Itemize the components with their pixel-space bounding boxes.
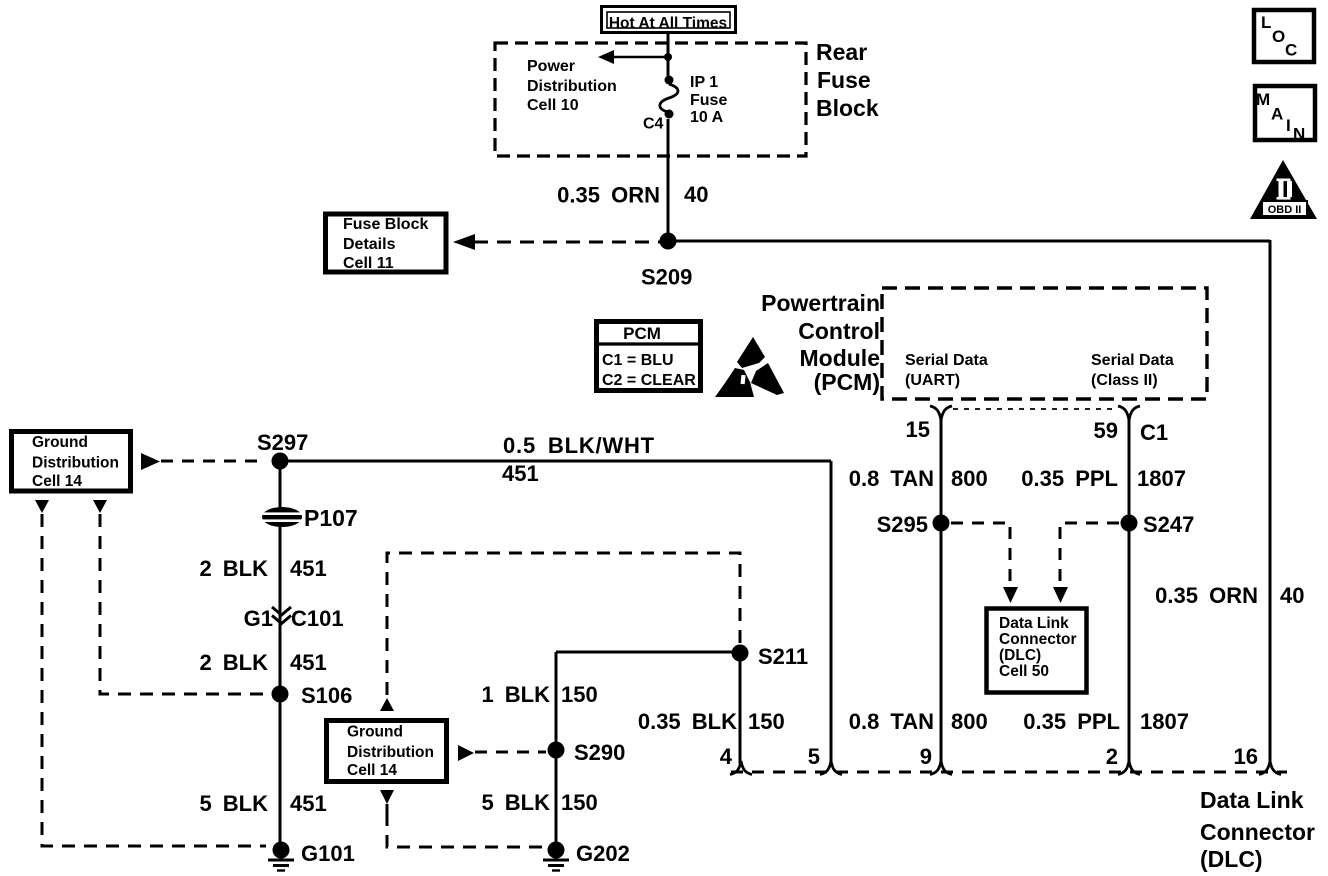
- wire S209 to right edge: [668, 240, 1270, 243]
- svg-text:(DLC): (DLC): [999, 647, 1041, 664]
- svg-text:S106: S106: [301, 683, 352, 708]
- svg-text:59: 59: [1094, 418, 1118, 443]
- DLC pin 9 entry: [930, 761, 952, 775]
- dashed reference S247 to DLC cell: [1053, 523, 1119, 603]
- svg-text:0.35 PPL: 0.35 PPL: [1023, 709, 1120, 734]
- wire label 5 BLK 451: [199, 791, 326, 816]
- splice S106: [272, 686, 289, 703]
- wire label 0.35 PPL 1807 (lower): [1023, 709, 1189, 734]
- Serial Data (UART) label: [905, 352, 988, 389]
- PCM dashed enclosure: [882, 288, 1207, 399]
- svg-text:Connector: Connector: [1200, 819, 1315, 845]
- Ground Distribution Cell 14 box (middle): [327, 721, 447, 782]
- splice S209: [660, 233, 677, 250]
- svg-text:Data Link: Data Link: [1200, 787, 1304, 813]
- svg-text:2 BLK: 2 BLK: [199, 650, 268, 675]
- wire label 2 BLK 451 (second): [199, 650, 326, 675]
- svg-text:S211: S211: [758, 644, 808, 669]
- svg-text:Connector: Connector: [999, 631, 1077, 648]
- arrow up above middle box: [380, 698, 394, 711]
- svg-text:S297: S297: [257, 430, 308, 455]
- splice S247: [1121, 515, 1138, 532]
- svg-text:1 BLK: 1 BLK: [481, 682, 550, 707]
- wire PCM 59 to DLC 2: [1128, 419, 1131, 764]
- svg-text:C: C: [1285, 41, 1297, 60]
- svg-text:C101: C101: [291, 606, 344, 631]
- wire label 2 BLK 451: [199, 556, 326, 581]
- svg-text:Block: Block: [816, 95, 879, 121]
- svg-text:(DLC): (DLC): [1200, 846, 1263, 872]
- svg-text:40: 40: [1280, 583, 1304, 608]
- svg-text:0.35 PPL: 0.35 PPL: [1021, 466, 1118, 491]
- svg-text:PCM: PCM: [623, 324, 661, 343]
- Data Link Connector (DLC) Cell 50 box: [987, 609, 1087, 693]
- connector G1 C101: [272, 607, 291, 624]
- svg-text:Fuse: Fuse: [817, 67, 871, 93]
- wire from fuse to S209: [667, 119, 670, 241]
- svg-text:C1 = BLU: C1 = BLU: [602, 352, 674, 369]
- svg-text:451: 451: [502, 461, 539, 486]
- dashed line to G202: [387, 804, 544, 847]
- splice S295: [933, 515, 950, 532]
- svg-text:451: 451: [290, 650, 327, 675]
- svg-text:Fuse Block: Fuse Block: [343, 216, 428, 233]
- svg-text:Power: Power: [527, 58, 575, 75]
- MAIN symbol: [1255, 86, 1315, 144]
- svg-text:M: M: [1256, 90, 1270, 109]
- svg-text:Control: Control: [798, 318, 880, 344]
- svg-text:OBD II: OBD II: [1268, 204, 1302, 216]
- wire down to DLC pin 5: [830, 461, 833, 764]
- Ground Distribution Cell 14 box (left): [12, 432, 131, 492]
- svg-text:Cell 10: Cell 10: [527, 97, 579, 114]
- Power Distribution Cell 10 label: [527, 58, 617, 114]
- svg-text:0.8 TAN: 0.8 TAN: [849, 466, 934, 491]
- wire label 0.8 TAN 800: [849, 466, 988, 491]
- svg-text:5: 5: [808, 744, 820, 769]
- svg-text:A: A: [1271, 105, 1283, 124]
- svg-text:Module: Module: [800, 345, 881, 371]
- wire S290 to S211: [556, 652, 740, 764]
- splice S297: [272, 453, 289, 470]
- svg-text:S247: S247: [1143, 512, 1194, 537]
- dashed reference S295 to DLC cell: [951, 523, 1018, 603]
- svg-text:IP 1: IP 1: [690, 74, 718, 91]
- svg-text:(Class II): (Class II): [1091, 372, 1158, 389]
- Rear Fuse Block label: [816, 39, 879, 121]
- svg-text:S295: S295: [877, 512, 928, 537]
- fuse value label IP 1 / Fuse / 10 A: [690, 74, 727, 126]
- svg-text:15: 15: [906, 417, 930, 442]
- PCM pin 15 connector exit: [930, 406, 952, 420]
- svg-text:Cell 50: Cell 50: [999, 663, 1049, 680]
- svg-text:16: 16: [1234, 744, 1258, 769]
- svg-text:9: 9: [920, 744, 932, 769]
- svg-text:Distribution: Distribution: [527, 78, 617, 95]
- svg-text:Details: Details: [343, 236, 396, 253]
- svg-text:1807: 1807: [1137, 466, 1186, 491]
- DLC pin 16 entry: [1259, 761, 1281, 775]
- svg-text:40: 40: [684, 182, 708, 207]
- ESD sensitivity symbol: [715, 337, 784, 397]
- wire down right side to DLC pin 16: [1269, 240, 1272, 764]
- svg-text:0.5 BLK/WHT: 0.5 BLK/WHT: [503, 433, 655, 458]
- svg-text:Serial Data: Serial Data: [905, 352, 988, 369]
- svg-text:2 BLK: 2 BLK: [199, 556, 268, 581]
- svg-text:150: 150: [561, 790, 598, 815]
- svg-text:150: 150: [748, 709, 785, 734]
- PCM connector legend box: [597, 322, 701, 391]
- svg-text:G202: G202: [576, 841, 630, 866]
- svg-text:Cell 14: Cell 14: [347, 762, 397, 779]
- svg-text:Cell 11: Cell 11: [343, 255, 394, 272]
- svg-text:Serial Data: Serial Data: [1091, 352, 1174, 369]
- node junction at fuse feed: [664, 53, 672, 61]
- svg-text:C2 = CLEAR: C2 = CLEAR: [602, 372, 696, 389]
- svg-text:5 BLK: 5 BLK: [481, 790, 550, 815]
- svg-text:C4: C4: [643, 116, 664, 133]
- PCM pin 59 connector exit: [1118, 406, 1140, 420]
- svg-text:0.35 ORN: 0.35 ORN: [557, 183, 660, 208]
- DLC pin 4 entry: [730, 761, 752, 775]
- svg-text:G1: G1: [244, 606, 273, 631]
- svg-text:451: 451: [290, 556, 327, 581]
- svg-text:C1: C1: [1140, 420, 1168, 445]
- svg-text:451: 451: [290, 791, 327, 816]
- dashed reference to S290 with arrow: [458, 745, 546, 761]
- svg-text:800: 800: [951, 709, 988, 734]
- wire PCM 15 to DLC 9: [940, 419, 943, 764]
- svg-text:Ground: Ground: [347, 724, 403, 741]
- dashed reference to Fuse Block Details: [453, 234, 660, 250]
- wire label 0.35 ORN 40: [557, 182, 708, 208]
- svg-text:P107: P107: [304, 505, 358, 531]
- Powertrain Control Module (PCM) label: [761, 290, 880, 395]
- arrow to Power Distribution: [598, 50, 668, 64]
- svg-text:0.35 ORN: 0.35 ORN: [1155, 583, 1258, 608]
- wire label 0.35 ORN 40 (right): [1155, 583, 1304, 608]
- Serial Data (Class II) label: [1091, 352, 1174, 389]
- svg-text:(UART): (UART): [905, 372, 960, 389]
- svg-text:5 BLK: 5 BLK: [199, 791, 268, 816]
- splice S290: [548, 742, 565, 759]
- dashed reference to S297 with arrow: [141, 453, 266, 470]
- wire label 0.35 PPL 1807: [1021, 466, 1186, 491]
- vertical wire S211 branch to G202: [555, 652, 558, 850]
- svg-text:Hot At All Times: Hot At All Times: [609, 15, 727, 32]
- svg-text:Distribution: Distribution: [347, 744, 434, 761]
- svg-text:O: O: [1272, 27, 1285, 46]
- svg-text:Data Link: Data Link: [999, 615, 1069, 632]
- wire from Hot At All Times down to fuse: [667, 34, 670, 78]
- svg-text:I: I: [1286, 116, 1291, 135]
- wire label 0.8 TAN 800 (lower): [849, 709, 988, 734]
- connector face dashed line: [953, 408, 1117, 410]
- ground G101: [268, 842, 294, 871]
- OBD II symbol: [1250, 160, 1317, 219]
- DLC pin 5 entry: [820, 761, 842, 775]
- svg-text:L: L: [1261, 13, 1271, 32]
- dashed reference from S211 down-left: [387, 553, 740, 696]
- LOC symbol: [1254, 10, 1314, 62]
- svg-text:N: N: [1293, 125, 1305, 144]
- svg-text:Rear: Rear: [816, 39, 867, 65]
- fuse F1: IP 1 Fuse 10 A: [660, 76, 678, 119]
- DLC pin 2 entry: [1118, 761, 1140, 775]
- svg-text:0.8 TAN: 0.8 TAN: [849, 709, 934, 734]
- DLC connector face dashed line: [731, 771, 1287, 774]
- svg-text:0.35 BLK: 0.35 BLK: [638, 709, 737, 734]
- ground G202: [543, 842, 569, 871]
- svg-text:1807: 1807: [1140, 709, 1189, 734]
- wire label 1 BLK 150: [481, 682, 597, 707]
- dashed line to S106: [100, 514, 264, 694]
- grommet P107: [262, 507, 302, 527]
- Data Link Connector (DLC) label: [1200, 787, 1315, 872]
- svg-text:Ground: Ground: [32, 434, 88, 451]
- splice S211: [732, 645, 749, 662]
- wire label 0.35 BLK 150: [638, 709, 785, 734]
- svg-text:S290: S290: [574, 740, 625, 765]
- vertical ground wire from S297: [279, 461, 282, 850]
- svg-text:G101: G101: [301, 841, 355, 866]
- dashed line to G101: [42, 514, 266, 846]
- svg-text:Distribution: Distribution: [32, 455, 119, 472]
- Rear Fuse Block dashed enclosure: [495, 43, 806, 156]
- svg-text:150: 150: [561, 682, 598, 707]
- dashed ground reference arrows below left box: [35, 500, 107, 513]
- svg-text:Fuse: Fuse: [690, 92, 727, 109]
- svg-text:S209: S209: [641, 265, 692, 290]
- svg-text:2: 2: [1106, 744, 1118, 769]
- svg-text:4: 4: [720, 744, 733, 769]
- wire S297 to DLC pin 5 (horizontal): [280, 460, 831, 463]
- Fuse Block Details Cell 11 box: [326, 214, 447, 272]
- svg-text:10 A: 10 A: [690, 109, 724, 126]
- wire label 5 BLK 150: [481, 790, 597, 815]
- svg-text:Powertrain: Powertrain: [761, 290, 880, 316]
- svg-text:(PCM): (PCM): [814, 369, 880, 395]
- Hot At All Times label box: [602, 7, 736, 33]
- svg-text:Cell 14: Cell 14: [32, 473, 82, 490]
- arrow down below middle box: [380, 790, 394, 804]
- svg-text:800: 800: [951, 466, 988, 491]
